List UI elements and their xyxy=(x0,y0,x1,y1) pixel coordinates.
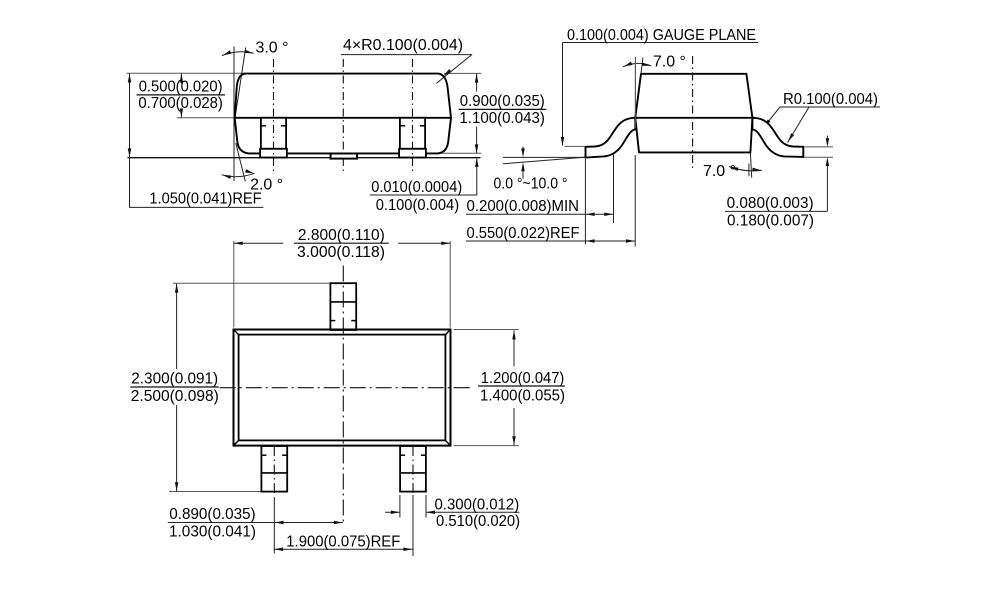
pin 1 lead (side view) xyxy=(260,118,287,158)
svg-text:2.300(0.091): 2.300(0.091) xyxy=(131,371,218,388)
svg-text:2.500(0.098): 2.500(0.098) xyxy=(131,388,219,405)
label 2.500(0.098) xyxy=(131,388,219,405)
side view body outline xyxy=(235,74,451,154)
arrow 1.9 left xyxy=(274,547,283,551)
label 0.200 MIN xyxy=(467,198,580,215)
dim line 0.550 REF xyxy=(466,240,635,242)
arrow 0.5-0.7 top xyxy=(180,74,184,83)
pin 3 lead (side view) xyxy=(399,118,426,158)
foot top extension (end view) xyxy=(565,145,586,147)
svg-text:3.0 °: 3.0 ° xyxy=(256,40,289,57)
svg-text:4×R0.100(0.004): 4×R0.100(0.004) xyxy=(343,37,463,54)
center line pin2 (side view) xyxy=(342,59,344,171)
dim line 2.300/2.500 upper xyxy=(176,284,178,369)
arrow thickness top xyxy=(826,138,830,147)
angle reference vertical top overlay (end view) xyxy=(634,57,636,128)
dim line 2.800/3.000 xyxy=(234,242,451,244)
label 1.030(0.041) xyxy=(169,524,256,541)
arrow 0.3 left xyxy=(391,510,400,514)
arrow body height bottom xyxy=(512,436,516,445)
label 3.000(0.118) xyxy=(297,244,385,261)
svg-text:0.100(0.004) GAUGE PLANE: 0.100(0.004) GAUGE PLANE xyxy=(567,27,756,44)
center line pin1 (top view) xyxy=(273,446,275,494)
foot angle incline xyxy=(503,157,586,164)
fraction bar 2.3/2.5 xyxy=(130,386,218,388)
label 1.100(0.043) xyxy=(459,110,545,127)
label 1.200(0.047) xyxy=(481,370,565,387)
label 0.300(0.012) xyxy=(435,496,520,513)
label 4xR0.100 xyxy=(343,37,463,54)
svg-text:0.500(0.020): 0.500(0.020) xyxy=(139,79,223,96)
angle reference slant 2deg xyxy=(236,143,246,182)
side view top extension line xyxy=(127,72,244,74)
label 7.0 bottom xyxy=(703,163,736,180)
svg-text:0.100(0.004): 0.100(0.004) xyxy=(376,197,459,214)
label 0.0-10.0 xyxy=(494,176,568,193)
ext line pin1 center xyxy=(273,497,275,554)
label 0.700(0.028) xyxy=(138,95,223,112)
arrow 0.89 left xyxy=(275,521,284,525)
top view chamfer TL xyxy=(234,330,239,335)
arrow width left xyxy=(234,241,243,245)
label 0.890(0.035) xyxy=(169,506,255,523)
arrow 0.200 left xyxy=(586,213,595,217)
ext line width left xyxy=(233,241,235,328)
svg-text:3.000(0.118): 3.000(0.118) xyxy=(297,244,385,261)
arrow foot angle bottom xyxy=(521,162,525,178)
label 2.800(0.110) xyxy=(298,227,385,244)
ext line right top xyxy=(454,329,519,331)
arrow arc7t right xyxy=(642,62,651,67)
svg-text:7.0 °: 7.0 ° xyxy=(653,54,686,71)
svg-text:0.700(0.028): 0.700(0.028) xyxy=(138,95,223,112)
right gull-wing lead (end view) xyxy=(752,118,803,157)
pin 3 lead (top view) xyxy=(400,446,426,492)
arc 7deg top xyxy=(623,63,651,66)
side view parting line xyxy=(235,117,451,119)
center line pin3 (side view) xyxy=(412,59,414,171)
arrow height top xyxy=(175,284,179,293)
arrow gauge plane xyxy=(561,137,565,146)
label 0.100(0.004)a xyxy=(376,197,459,214)
svg-text:R0.100(0.004): R0.100(0.004) xyxy=(783,91,878,108)
arrow R leader 1 xyxy=(762,119,770,128)
fraction bar 0.9/1.1 xyxy=(459,108,547,110)
svg-text:1.900(0.075)REF: 1.900(0.075)REF xyxy=(286,534,400,551)
svg-text:0.300(0.012): 0.300(0.012) xyxy=(435,496,520,513)
arrow 0.3 right xyxy=(426,510,435,514)
ext line width right xyxy=(449,241,451,328)
label 2.0 deg xyxy=(250,176,283,193)
center line (end view) xyxy=(692,56,694,169)
dimension line 0.900/1.100 lower segment xyxy=(476,127,478,154)
svg-text:0.890(0.035): 0.890(0.035) xyxy=(169,506,255,523)
svg-text:0.0 °~10.0 °: 0.0 °~10.0 ° xyxy=(494,176,568,193)
top view body outer xyxy=(234,330,451,446)
arrow 0.5-0.7 bottom xyxy=(180,109,184,118)
angle slant ext top (end view) xyxy=(641,58,643,74)
arrow arc2 left xyxy=(222,173,231,179)
top view chamfer BL xyxy=(234,440,239,445)
ext line body edge (end view) xyxy=(634,155,636,247)
label 7.0 top xyxy=(653,54,686,71)
label 0.500(0.020) xyxy=(139,79,223,96)
arrow arc3 left xyxy=(222,50,231,57)
ext line foot tip xyxy=(584,159,586,245)
label 0.080(0.003) xyxy=(727,195,814,212)
arrow 0.9-1.1 top xyxy=(475,74,479,83)
angle reference vertical (side view) xyxy=(233,47,235,182)
dim line 2.300/2.500 lower xyxy=(176,405,178,491)
foot angle horizontal xyxy=(503,156,586,158)
label 0.010(0.0004) xyxy=(371,179,462,196)
svg-text:1.050(0.041)REF: 1.050(0.041)REF xyxy=(149,191,261,208)
label gauge plane xyxy=(567,27,756,44)
label 0.510(0.020) xyxy=(436,513,520,530)
arrow 1.9 right xyxy=(403,547,412,551)
arrow width right xyxy=(441,241,450,245)
center line pin1 (side view) xyxy=(273,59,275,171)
side view seating plane line xyxy=(128,157,481,159)
svg-text:1.100(0.043): 1.100(0.043) xyxy=(459,110,545,127)
lead thickness ext top xyxy=(804,146,833,148)
ext line bottom lead bottom xyxy=(169,491,262,493)
top view body inner xyxy=(239,335,446,441)
label 0.550 REF xyxy=(467,225,580,242)
angle reference vertical top (end view) xyxy=(634,57,636,129)
arrow 0.89 right xyxy=(334,521,343,525)
arc 2.0 deg xyxy=(222,173,255,176)
top view chamfer BR xyxy=(445,440,450,445)
label 1.050 REF xyxy=(149,191,261,208)
svg-text:1.030(0.041): 1.030(0.041) xyxy=(169,524,256,541)
svg-text:0.010(0.0004): 0.010(0.0004) xyxy=(371,179,462,196)
pin 1 lead (top view) xyxy=(261,446,287,492)
arrow arc3 right xyxy=(244,50,253,55)
radius leader 4xR xyxy=(341,55,472,84)
lead thickness ext bottom xyxy=(804,156,833,158)
arrow 0.550 right xyxy=(626,239,635,243)
standoff leader 0.010/0.100 xyxy=(370,159,477,196)
dim line 1.200/1.400 upper xyxy=(513,330,515,366)
left gull-wing lead (end view) xyxy=(586,118,636,158)
arrow arc2 right xyxy=(245,169,254,175)
arrow 0.550 left xyxy=(586,239,595,243)
svg-text:1.400(0.055): 1.400(0.055) xyxy=(480,388,565,405)
ext line top lead top xyxy=(173,282,331,284)
horizontal center line (top view) xyxy=(220,387,471,389)
svg-text:0.510(0.020): 0.510(0.020) xyxy=(436,513,520,530)
label 0.900(0.035) xyxy=(460,93,545,110)
dim line 0.200 MIN xyxy=(466,213,614,215)
angle tick vertical bottom (end view) xyxy=(748,164,750,177)
center line pin3 (top view) xyxy=(412,446,414,494)
arc 3.0 deg xyxy=(222,52,254,56)
svg-text:2.800(0.110): 2.800(0.110) xyxy=(298,227,385,244)
angle slant ext bottom (end view) xyxy=(750,152,751,177)
end view body outline xyxy=(635,74,752,153)
arrow arc7t left xyxy=(623,62,632,69)
arrow arc7b left xyxy=(729,165,738,171)
ext line lead left edge xyxy=(399,495,401,518)
ext line lead right edge xyxy=(425,495,427,518)
dim line 1.200/1.400 lower xyxy=(513,408,515,445)
arrow overall height top xyxy=(128,74,132,83)
svg-text:0.180(0.007): 0.180(0.007) xyxy=(727,212,814,229)
svg-text:0.200(0.008)MIN: 0.200(0.008)MIN xyxy=(467,198,580,215)
side view parting-line extension xyxy=(177,117,235,119)
arrow arc7b right xyxy=(752,168,761,172)
ext line right bottom xyxy=(454,445,519,447)
side view right top extension line xyxy=(444,72,481,74)
arrow body height top xyxy=(512,331,516,340)
svg-text:0.080(0.003): 0.080(0.003) xyxy=(727,195,814,212)
arrow overall height bottom xyxy=(128,148,132,157)
dim line 0.890/1.030 xyxy=(168,522,343,524)
ext line 0.200 right xyxy=(613,149,615,224)
label 1.400(0.055) xyxy=(480,388,565,405)
dimension line overall height + 1.050 REF leader xyxy=(130,73,264,207)
svg-text:0.550(0.022)REF: 0.550(0.022)REF xyxy=(467,225,580,242)
dim line 1.900 REF xyxy=(274,548,413,550)
arrow 0.200 right xyxy=(604,213,613,217)
arrow height bottom xyxy=(175,482,179,491)
gauge plane leader xyxy=(563,43,759,146)
pin 2 lead (top view) xyxy=(330,283,356,330)
end view parting line xyxy=(635,117,752,119)
arrow thickness bottom xyxy=(826,157,830,166)
arrow radius leader xyxy=(442,69,451,77)
side view right bottom extension line xyxy=(441,152,481,154)
dimension line 0.500/0.700 xyxy=(180,73,182,117)
label R0.100 xyxy=(783,91,878,108)
lead thickness leader xyxy=(725,136,827,212)
arc 7deg bottom xyxy=(729,167,762,171)
arrow 0.9-1.1 bottom xyxy=(475,144,479,153)
dim line 0.300/0.510 xyxy=(385,511,519,513)
pin 2 tab (side view) xyxy=(331,154,357,159)
svg-text:1.200(0.047): 1.200(0.047) xyxy=(481,370,565,387)
ext line pin3 center xyxy=(412,495,414,556)
dimension line 0.900/1.100 upper segment xyxy=(476,74,478,92)
label 3.0 deg xyxy=(256,40,289,57)
label 2.300(0.091) xyxy=(131,371,218,388)
arrow R leader 2 xyxy=(787,133,795,142)
arrow standoff xyxy=(475,158,479,167)
svg-text:7.0 °: 7.0 ° xyxy=(703,163,736,180)
arrow foot angle top xyxy=(521,147,525,158)
fraction bar 1.2/1.4 xyxy=(478,385,565,387)
label 1.900 REF xyxy=(286,534,400,551)
top view chamfer TR xyxy=(445,330,450,335)
svg-text:0.900(0.035): 0.900(0.035) xyxy=(460,93,545,110)
angle reference slant 3deg xyxy=(235,48,246,117)
fraction bar 0.5/0.7 xyxy=(137,94,226,96)
label 0.180(0.007) xyxy=(727,212,814,229)
vertical center line (top view) xyxy=(342,266,344,523)
radius leader R0.100 xyxy=(763,107,880,143)
